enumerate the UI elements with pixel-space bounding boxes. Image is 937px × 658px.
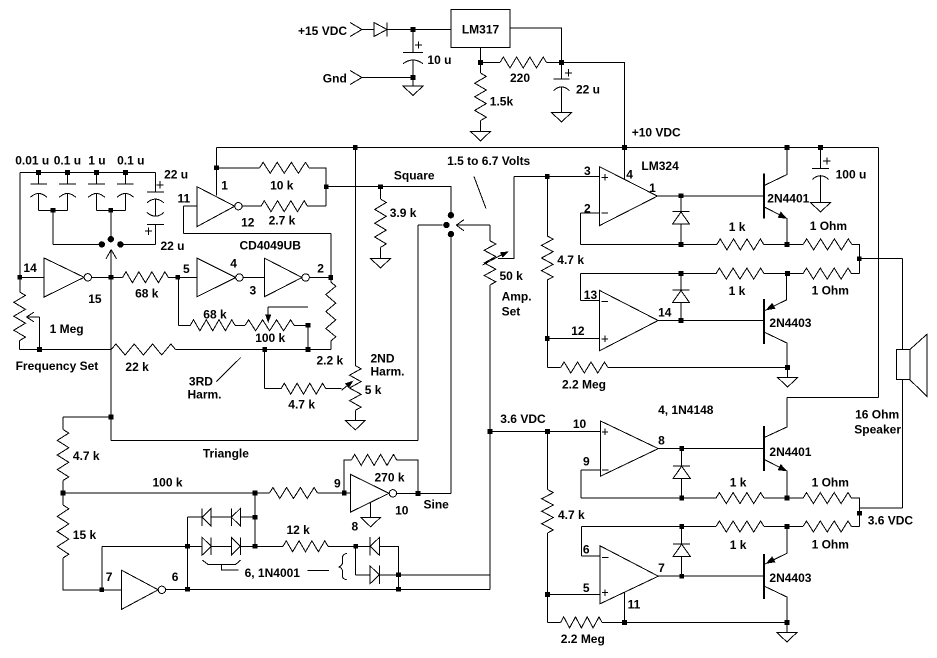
svg-text:6: 6	[583, 543, 590, 557]
svg-text:10: 10	[395, 504, 409, 518]
svg-text:5: 5	[183, 262, 190, 276]
svg-text:11: 11	[628, 598, 641, 612]
svg-text:4, 1N4148: 4, 1N4148	[658, 403, 714, 417]
svg-text:0.1 u: 0.1 u	[117, 154, 144, 168]
svg-text:1 Ohm: 1 Ohm	[812, 284, 849, 298]
svg-text:1 k: 1 k	[729, 220, 746, 234]
svg-text:1 Ohm: 1 Ohm	[812, 538, 849, 552]
svg-text:12: 12	[241, 216, 255, 230]
svg-text:2ND: 2ND	[371, 352, 395, 366]
svg-text:10 u: 10 u	[427, 53, 451, 67]
svg-text:5: 5	[583, 581, 590, 595]
svg-text:2: 2	[317, 262, 324, 276]
svg-text:50 k: 50 k	[500, 269, 524, 283]
svg-text:LM324: LM324	[641, 159, 679, 173]
svg-text:3.6 VDC: 3.6 VDC	[500, 412, 546, 426]
svg-text:+10 VDC: +10 VDC	[632, 126, 681, 140]
svg-text:4: 4	[626, 168, 633, 182]
svg-text:10 k: 10 k	[270, 179, 294, 193]
svg-text:2.2 Meg: 2.2 Meg	[561, 632, 605, 646]
svg-text:22 u: 22 u	[576, 83, 600, 97]
svg-text:+15 VDC: +15 VDC	[298, 24, 347, 38]
svg-text:6, 1N4001: 6, 1N4001	[245, 566, 301, 580]
svg-text:14: 14	[658, 306, 672, 320]
svg-text:Harm.: Harm.	[371, 365, 405, 379]
svg-text:8: 8	[352, 520, 359, 534]
svg-text:12: 12	[571, 324, 585, 338]
svg-text:3.6 VDC: 3.6 VDC	[868, 514, 914, 528]
svg-text:Square: Square	[394, 169, 435, 183]
svg-text:100 k: 100 k	[153, 476, 183, 490]
svg-text:100 u: 100 u	[836, 168, 867, 182]
svg-text:13: 13	[584, 288, 598, 302]
svg-text:4: 4	[230, 257, 237, 271]
svg-text:Gnd: Gnd	[323, 72, 347, 86]
svg-text:16 Ohm: 16 Ohm	[855, 408, 899, 422]
svg-text:8: 8	[658, 434, 665, 448]
svg-text:Amp.: Amp.	[502, 290, 532, 304]
svg-text:68 k: 68 k	[135, 287, 159, 301]
svg-text:9: 9	[334, 477, 341, 491]
svg-text:0.01 u: 0.01 u	[15, 154, 49, 168]
svg-text:14: 14	[23, 261, 37, 275]
svg-text:12 k: 12 k	[287, 523, 311, 537]
svg-text:11: 11	[178, 192, 191, 206]
svg-text:4.7 k: 4.7 k	[73, 449, 100, 463]
svg-text:1 Ohm: 1 Ohm	[810, 219, 847, 233]
svg-text:22 k: 22 k	[125, 360, 149, 374]
svg-text:1 u: 1 u	[88, 154, 105, 168]
svg-text:Set: Set	[502, 305, 521, 319]
svg-text:1 k: 1 k	[729, 284, 746, 298]
svg-text:15: 15	[88, 292, 102, 306]
svg-text:1.5 to 6.7 Volts: 1.5 to 6.7 Volts	[447, 154, 530, 168]
svg-text:Harm.: Harm.	[188, 388, 222, 402]
svg-text:3: 3	[584, 164, 591, 178]
svg-text:2N4403: 2N4403	[769, 571, 811, 585]
svg-text:270 k: 270 k	[375, 471, 405, 485]
svg-text:2N4401: 2N4401	[767, 192, 809, 206]
svg-text:1 Meg: 1 Meg	[50, 322, 84, 336]
svg-text:68 k: 68 k	[203, 308, 227, 322]
svg-text:100 k: 100 k	[255, 331, 285, 345]
svg-text:6: 6	[172, 570, 179, 584]
svg-text:3.9 k: 3.9 k	[390, 206, 417, 220]
svg-text:Speaker: Speaker	[854, 423, 901, 437]
svg-text:2N4403: 2N4403	[769, 316, 811, 330]
svg-text:Sine: Sine	[424, 498, 450, 512]
svg-text:1: 1	[649, 181, 656, 195]
svg-text:220: 220	[510, 71, 530, 85]
svg-text:4.7 k: 4.7 k	[288, 398, 315, 412]
svg-text:LM317: LM317	[462, 23, 500, 37]
svg-text:7: 7	[658, 561, 665, 575]
svg-text:2N4401: 2N4401	[769, 445, 811, 459]
svg-text:3RD: 3RD	[189, 375, 213, 389]
svg-text:1 k: 1 k	[730, 538, 747, 552]
svg-text:CD4049UB: CD4049UB	[240, 239, 302, 253]
svg-text:1 k: 1 k	[730, 476, 747, 490]
svg-text:22 u: 22 u	[164, 168, 188, 182]
svg-text:5 k: 5 k	[365, 383, 382, 397]
svg-text:4.7 k: 4.7 k	[557, 253, 584, 267]
svg-text:9: 9	[583, 455, 590, 469]
svg-text:2.2 k: 2.2 k	[317, 354, 344, 368]
svg-text:10: 10	[573, 417, 587, 431]
svg-text:2.7 k: 2.7 k	[269, 214, 296, 228]
svg-text:Frequency Set: Frequency Set	[16, 359, 99, 373]
svg-text:1 Ohm: 1 Ohm	[812, 476, 849, 490]
svg-text:1: 1	[221, 179, 228, 193]
svg-text:15 k: 15 k	[73, 528, 97, 542]
svg-text:22 u: 22 u	[161, 239, 185, 253]
svg-text:Triangle: Triangle	[203, 447, 249, 461]
svg-text:3: 3	[250, 284, 257, 298]
svg-text:4.7 k: 4.7 k	[558, 508, 585, 522]
svg-text:1.5k: 1.5k	[490, 95, 514, 109]
svg-text:2.2 Meg: 2.2 Meg	[562, 378, 606, 392]
svg-text:0.1 u: 0.1 u	[54, 154, 81, 168]
svg-text:7: 7	[106, 570, 113, 584]
